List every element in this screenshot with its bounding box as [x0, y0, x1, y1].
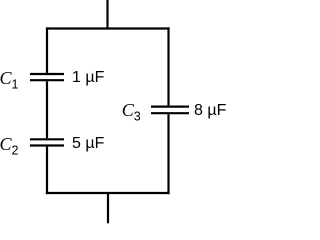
wire right edge lower segment: [167, 114, 169, 194]
wire left edge upper segment: [46, 27, 48, 73]
wire right edge upper segment: [167, 27, 169, 105]
wire bottom edge: [46, 192, 170, 194]
label C2: [0, 135, 18, 157]
label C1: [0, 69, 18, 91]
value 8 uF: [194, 103, 226, 119]
value 5 uF: [72, 136, 104, 152]
value 1 uF: [72, 70, 104, 86]
wire top lead: [106, 0, 108, 30]
label C3: [122, 101, 141, 123]
wire bottom lead: [107, 193, 109, 223]
wire left edge middle segment: [46, 81, 48, 138]
capacitor C2: [30, 139, 64, 145]
wire left edge lower segment: [46, 147, 48, 195]
capacitor C1: [30, 74, 64, 80]
wire top edge: [46, 27, 170, 29]
capacitor C3: [151, 107, 189, 114]
